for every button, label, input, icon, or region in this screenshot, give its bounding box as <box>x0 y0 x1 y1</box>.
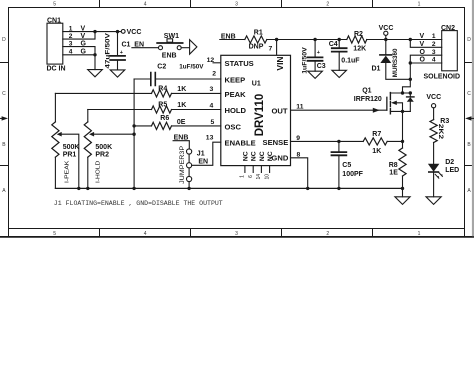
svg-text:6: 6 <box>248 175 254 178</box>
resistor R4 1K <box>55 86 220 97</box>
junction C5 bottom <box>337 187 340 190</box>
transistor Q1 IRFR120 <box>354 88 414 114</box>
svg-text:12: 12 <box>207 57 215 64</box>
svg-text:0E: 0E <box>177 119 186 126</box>
frame centering arrow left <box>2 116 8 120</box>
svg-text:2: 2 <box>212 70 216 77</box>
connector CN2 <box>424 25 461 81</box>
junction CN2 V <box>409 38 412 41</box>
svg-text:JUMPER3P: JUMPER3P <box>180 146 186 184</box>
junction Q1 drain left <box>401 91 404 94</box>
svg-text:D1: D1 <box>372 65 381 72</box>
svg-text:DC IN: DC IN <box>47 65 66 72</box>
CN1 pin numbers <box>69 25 73 55</box>
svg-text:1uF/50V: 1uF/50V <box>302 46 309 73</box>
wire OUT to Q1 gate <box>291 97 387 112</box>
ground (D2) <box>426 197 441 205</box>
svg-text:12K: 12K <box>353 45 366 52</box>
svg-text:ENABLE: ENABLE <box>225 139 256 148</box>
svg-text:+: + <box>120 50 123 56</box>
sheet frame <box>0 0 474 237</box>
potentiometer PR2 500K <box>84 110 134 189</box>
resistor R7 1K <box>363 131 402 155</box>
svg-text:9: 9 <box>296 135 300 142</box>
svg-text:NC: NC <box>242 151 249 161</box>
wire SENSE pin 9 row <box>291 140 364 142</box>
svg-text:STATUS: STATUS <box>225 59 254 68</box>
junction R7 right <box>401 140 404 143</box>
svg-text:R8: R8 <box>389 162 398 169</box>
svg-text:R5: R5 <box>158 102 167 109</box>
svg-text:D: D <box>2 37 6 43</box>
svg-text:8: 8 <box>297 151 301 158</box>
svg-text:+: + <box>317 50 320 56</box>
svg-text:1uF/50V: 1uF/50V <box>179 63 204 70</box>
svg-text:DNP: DNP <box>249 44 264 51</box>
capacitor C4 0.1uF <box>329 40 361 71</box>
svg-text:PEAK: PEAK <box>225 90 247 99</box>
junction CN2 O <box>409 61 412 64</box>
junction rail R8 <box>401 187 404 190</box>
potentiometer PR1 500K <box>52 93 80 188</box>
svg-text:3: 3 <box>235 231 238 237</box>
svg-text:ENB: ENB <box>162 53 177 60</box>
svg-text:J1 FLOATING=ENABLE , GND=DISAB: J1 FLOATING=ENABLE , GND=DISABLE THE OUT… <box>54 200 223 207</box>
wire R3 to D2 <box>433 143 435 164</box>
svg-text:PR1: PR1 <box>63 152 77 159</box>
resistor R5 1K <box>88 102 221 113</box>
svg-text:C: C <box>2 91 6 97</box>
wire ENB to R1 <box>220 39 245 41</box>
svg-text:OUT: OUT <box>271 107 287 116</box>
wire ground rail branch (C2/R6 to GND rail) <box>133 79 135 188</box>
junction PR1 wiper at rail <box>77 187 80 190</box>
wire D2 to ground <box>433 172 435 197</box>
svg-text:IRFR120: IRFR120 <box>354 96 382 103</box>
svg-text:R7: R7 <box>372 131 381 138</box>
svg-text:100PF: 100PF <box>342 171 363 178</box>
svg-text:DRV110: DRV110 <box>254 94 266 137</box>
drain line <box>390 92 410 94</box>
svg-text:14: 14 <box>256 174 262 180</box>
svg-text:5: 5 <box>53 2 56 8</box>
LED D2 <box>428 159 459 178</box>
svg-text:2: 2 <box>326 2 329 8</box>
svg-text:B: B <box>467 142 471 148</box>
connector CN1 <box>47 17 66 72</box>
wire CN1 pins 1+2 tie to VCC <box>63 32 122 39</box>
power VCC (LED branch) <box>426 94 441 120</box>
wire R2 to VCC node <box>367 39 411 41</box>
capacitor C5 100PF <box>332 141 364 188</box>
junction CN1 pin1 <box>93 30 96 33</box>
svg-text:1: 1 <box>418 231 421 237</box>
svg-text:MURS360: MURS360 <box>392 48 399 77</box>
svg-text:D2: D2 <box>445 159 454 166</box>
svg-text:1K: 1K <box>177 86 186 93</box>
wire J1 bottom to rail <box>188 182 190 189</box>
junction PR2 bottom at rail <box>86 187 89 190</box>
node EN / wire to SW1 <box>132 41 159 48</box>
body diode of Q1 <box>409 93 411 111</box>
resistor R8 1E <box>389 141 406 188</box>
ground (C3) <box>308 71 323 78</box>
svg-text:4: 4 <box>144 2 147 8</box>
capacitor C2 1uF/50V <box>134 63 221 85</box>
resistor R2 12K <box>347 31 367 52</box>
power VCC (input) <box>121 29 141 36</box>
svg-text:J1: J1 <box>197 151 205 158</box>
wire VIN pin 7 drop <box>276 40 278 56</box>
svg-text:A: A <box>467 188 471 194</box>
svg-text:OSC: OSC <box>225 122 242 131</box>
diode D1 MURS360 <box>372 40 411 80</box>
svg-text:C1: C1 <box>122 41 131 48</box>
junction C5 top <box>337 140 340 143</box>
resistor R1 DNP <box>245 30 267 51</box>
svg-text:5: 5 <box>53 231 56 237</box>
wire GND pin 8 <box>291 158 308 189</box>
body arrow <box>391 101 397 105</box>
port flag ENB (right-pointing triangle) <box>190 40 197 55</box>
ground (rail) <box>395 197 410 205</box>
CN2 pin numbers <box>432 33 436 64</box>
junction Q1 drain right <box>409 91 412 94</box>
resistor R6 0E <box>134 115 221 129</box>
junction C4 <box>338 38 341 41</box>
svg-text:U1: U1 <box>252 81 261 88</box>
svg-text:GND: GND <box>271 154 288 163</box>
svg-text:500K: 500K <box>63 144 80 151</box>
svg-text:13: 13 <box>206 135 214 142</box>
svg-text:0.1uF: 0.1uF <box>341 57 360 64</box>
svg-text:R4: R4 <box>158 86 167 93</box>
power VCC (top) <box>379 25 394 40</box>
channel dashes <box>389 93 391 114</box>
svg-text:2K2: 2K2 <box>437 124 443 140</box>
node ENB at J1 <box>173 134 189 148</box>
gate bar <box>386 97 388 110</box>
wire CN2 O down to Q1 drain <box>403 63 411 93</box>
svg-text:500K: 500K <box>95 144 112 151</box>
svg-text:10: 10 <box>264 174 270 180</box>
right page edge band <box>472 0 474 236</box>
wire SW1 to port flag <box>181 47 189 49</box>
svg-text:3: 3 <box>235 2 238 8</box>
svg-text:R2: R2 <box>354 31 363 38</box>
svg-text:VCC: VCC <box>426 94 441 101</box>
svg-text:4: 4 <box>144 231 147 237</box>
svg-text:NC: NC <box>259 151 266 161</box>
svg-text:D: D <box>467 37 471 43</box>
svg-text:C3: C3 <box>317 63 326 70</box>
wire Q1 source down to sense node <box>402 111 404 141</box>
junction GND at rail <box>306 187 309 190</box>
wire CN2 V pins tie <box>410 40 441 48</box>
svg-text:C5: C5 <box>342 162 351 169</box>
source line <box>390 110 410 112</box>
svg-text:R6: R6 <box>160 115 169 122</box>
junction PR2 wiper at rail <box>132 133 135 136</box>
svg-text:1K: 1K <box>372 148 381 155</box>
svg-text:C4: C4 <box>329 41 338 48</box>
wire ground rail <box>55 187 402 189</box>
junction VIN <box>275 38 278 41</box>
svg-text:VIN: VIN <box>275 56 285 70</box>
wire C3 to R2 <box>315 39 347 41</box>
svg-text:SOLENOID: SOLENOID <box>424 74 461 81</box>
svg-text:5: 5 <box>211 119 215 126</box>
wire rail to ground <box>402 188 404 196</box>
svg-text:NC: NC <box>251 151 258 161</box>
zone letters left <box>2 37 6 194</box>
junction J1 at rail <box>187 187 190 190</box>
svg-text:LED: LED <box>445 167 459 174</box>
svg-text:1E: 1E <box>389 170 398 177</box>
ground (C1) <box>110 70 125 77</box>
wire STATUS stub <box>213 62 221 64</box>
resistor R3 2K2 <box>430 118 449 143</box>
svg-text:1: 1 <box>240 175 246 178</box>
CN2 pin labels V V O O <box>420 33 426 64</box>
wire R1 to VIN node and onward <box>267 39 315 41</box>
zone numbers bottom <box>53 231 420 237</box>
svg-text:HOLD: HOLD <box>225 106 247 115</box>
svg-text:2: 2 <box>326 231 329 237</box>
svg-text:C: C <box>467 91 471 97</box>
wire ENABLE pin 13 to J1 middle <box>192 142 221 165</box>
wire CN1 pins 3+4 tie to ground <box>63 47 95 70</box>
ground (CN1) <box>88 70 103 77</box>
svg-text:PR2: PR2 <box>95 152 109 159</box>
svg-text:KEEP: KEEP <box>225 75 246 84</box>
svg-text:I-HOLD: I-HOLD <box>96 161 102 183</box>
junction rail branch <box>132 187 135 190</box>
svg-text:B: B <box>2 142 6 148</box>
svg-text:7: 7 <box>269 45 273 52</box>
CN1 pin name labels V V G G <box>81 25 87 55</box>
svg-text:47uF/50V: 47uF/50V <box>104 32 111 69</box>
jumper J1 JUMPER3P <box>180 146 208 184</box>
svg-text:I-PEAK: I-PEAK <box>64 160 70 183</box>
svg-text:3: 3 <box>210 86 214 93</box>
junction R6 at rail <box>132 124 135 127</box>
zone numbers top <box>53 2 420 8</box>
pin stubs NC 1,6,14,10 <box>240 166 271 180</box>
junction VCC node <box>384 38 387 41</box>
junction C3 <box>313 38 316 41</box>
svg-text:1K: 1K <box>177 102 186 109</box>
capacitor C1 47uF/50V <box>104 32 130 70</box>
wire CN2 O pins tie <box>410 55 441 63</box>
junction D1 to output column <box>409 78 412 81</box>
switch SW1 <box>157 33 182 60</box>
junction CN1 pin4 <box>93 53 96 56</box>
ground (C4) <box>332 70 347 77</box>
zone letters right <box>467 37 471 194</box>
outer thick border bottom <box>0 236 474 238</box>
svg-text:11: 11 <box>296 103 303 110</box>
svg-text:EN: EN <box>198 159 208 166</box>
svg-text:A: A <box>2 188 6 194</box>
svg-text:NC: NC <box>267 151 274 161</box>
svg-text:VCC: VCC <box>379 25 394 32</box>
svg-text:C2: C2 <box>157 63 166 70</box>
junction C1 tap <box>116 30 119 33</box>
IC U1 DRV110 <box>221 55 291 165</box>
svg-text:4: 4 <box>210 102 214 109</box>
frame centering arrow right <box>465 116 471 120</box>
svg-text:Q1: Q1 <box>362 88 371 95</box>
junction Q1 source <box>401 110 404 113</box>
svg-text:1: 1 <box>418 2 421 8</box>
capacitor C3 1uF/50V <box>302 40 326 74</box>
svg-text:R1: R1 <box>254 30 263 37</box>
svg-text:VCC: VCC <box>127 29 142 36</box>
svg-text:SENSE: SENSE <box>263 138 289 147</box>
